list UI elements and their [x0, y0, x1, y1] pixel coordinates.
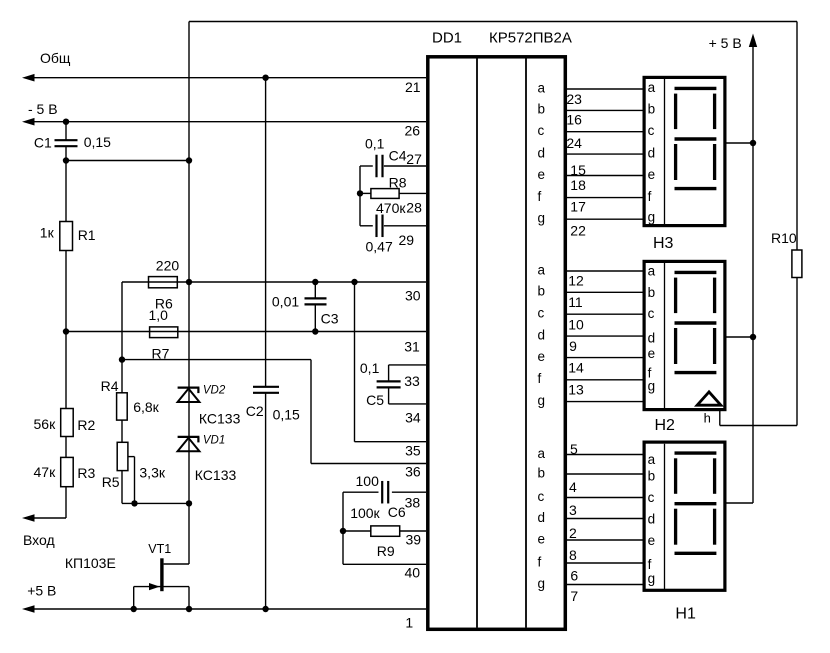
svg-text:КС133: КС133 — [199, 411, 241, 427]
capacitor C3 0,01 — [305, 297, 327, 299]
svg-text:2: 2 — [569, 525, 577, 541]
svg-text:f: f — [538, 371, 542, 386]
svg-text:31: 31 — [404, 339, 420, 355]
svg-text:b: b — [648, 285, 656, 300]
wire R7 line to DD1 pin 31 — [66, 331, 426, 333]
svg-text:e: e — [538, 531, 546, 546]
svg-text:c: c — [648, 123, 655, 138]
svg-text:e: e — [648, 533, 656, 548]
svg-text:e: e — [648, 346, 656, 361]
wire C3 bottom stub — [314, 305, 316, 332]
wire +5 В rail to DD1 pin 1 — [25, 608, 426, 610]
svg-text:0,1: 0,1 — [360, 360, 380, 376]
svg-text:d: d — [648, 331, 656, 346]
svg-text:C5: C5 — [366, 392, 384, 408]
svg-text:VT1: VT1 — [148, 542, 171, 556]
capacitor C1 0,15 — [55, 139, 78, 141]
svg-text:e: e — [538, 349, 546, 364]
7-segment indicator H1 — [644, 442, 725, 590]
svg-text:b: b — [538, 284, 546, 299]
capacitor C6 100 — [381, 481, 383, 504]
svg-text:R8: R8 — [389, 175, 407, 191]
wire +5 В vertical to displays — [752, 45, 754, 503]
svg-text:b: b — [538, 465, 546, 480]
node junction R1 bottom / R7 line — [63, 328, 69, 334]
wire bracket vertical pins 27-29 — [359, 166, 361, 226]
wire vertical x=311 down to pin 36 line — [310, 360, 312, 464]
svg-text:d: d — [538, 510, 546, 525]
wire H2 point h to R10 — [719, 411, 721, 426]
svg-text:+ 5 В: + 5 В — [709, 35, 742, 51]
svg-text:c: c — [648, 490, 655, 505]
wire DD1 pin 35 line from pin30 branch — [355, 441, 427, 443]
wire DD1 pin 27 line — [384, 165, 426, 167]
svg-text:a: a — [538, 446, 546, 461]
op-amp U1 ADC DD1 КР572ПВ2А body — [428, 57, 566, 630]
svg-text:34: 34 — [405, 410, 421, 426]
resistor R6 220 — [149, 277, 178, 288]
resistor R4 6,8к — [117, 393, 128, 420]
wire DD1 pin 40 line — [343, 563, 426, 565]
svg-text:21: 21 — [405, 79, 421, 95]
svg-text:0,47: 0,47 — [366, 239, 393, 255]
wire H1 common to +5 line — [727, 502, 754, 504]
wire segment lines DD1 to H3 — [566, 88, 643, 90]
svg-text:23: 23 — [566, 91, 582, 107]
svg-text:22: 22 — [570, 222, 586, 238]
svg-text:47к: 47к — [34, 464, 57, 480]
svg-text:24: 24 — [566, 135, 582, 151]
wire -5 В rail to DD1 pin 26 — [25, 121, 426, 123]
svg-text:c: c — [538, 489, 545, 504]
wire R5 bottom to VD1 anode junction — [122, 502, 189, 504]
zener diode VD1 КС133 — [178, 436, 200, 438]
svg-text:28: 28 — [406, 200, 422, 216]
wire segment lines DD1 to H1 — [566, 454, 643, 456]
7-segment indicator H3 — [644, 77, 725, 225]
resistor R10 — [792, 250, 802, 278]
resistor R5 3,3к (trimmer) — [117, 442, 128, 470]
svg-text:f: f — [648, 189, 652, 204]
wire DD1 pin 28 line — [360, 192, 371, 194]
svg-text:C1: C1 — [34, 135, 52, 151]
svg-text:H1: H1 — [675, 606, 696, 623]
svg-text:C6: C6 — [388, 504, 406, 520]
svg-text:18: 18 — [570, 177, 586, 193]
wire Общ rail to DD1 pin 21 — [25, 77, 426, 79]
svg-text:9: 9 — [569, 338, 577, 354]
svg-text:R10: R10 — [771, 230, 797, 246]
svg-text:a: a — [648, 80, 656, 95]
svg-text:d: d — [538, 145, 546, 160]
svg-text:H2: H2 — [655, 417, 676, 434]
7-segment indicator H2 (with decimal point h) — [644, 261, 725, 409]
svg-text:40: 40 — [405, 565, 421, 581]
node Вход (input) terminal arrow — [22, 514, 35, 522]
svg-text:C4: C4 — [389, 148, 407, 164]
svg-text:13: 13 — [568, 381, 584, 397]
svg-text:e: e — [538, 167, 546, 182]
svg-text:H3: H3 — [653, 235, 674, 252]
svg-text:7: 7 — [570, 588, 578, 604]
svg-text:c: c — [648, 306, 655, 321]
svg-text:17: 17 — [570, 199, 586, 215]
zener diode VD2 КС133 — [178, 387, 200, 389]
svg-text:11: 11 — [568, 294, 583, 310]
svg-text:0,1: 0,1 — [365, 136, 385, 152]
svg-text:d: d — [648, 512, 656, 527]
svg-text:30: 30 — [405, 288, 421, 304]
svg-text:b: b — [648, 469, 656, 484]
wire top rail from node over DD1 to R10 — [189, 21, 797, 23]
capacitor C2 0,15 — [253, 386, 279, 388]
svg-text:12: 12 — [568, 273, 584, 289]
wire VT1 source to +5 rail — [188, 587, 190, 609]
svg-text:R1: R1 — [78, 227, 96, 243]
svg-text:f: f — [538, 189, 542, 204]
wire C2 bottom to +5 В rail — [265, 393, 267, 609]
transistor VT1 КП103Е (JFET) — [160, 558, 163, 591]
svg-text:35: 35 — [405, 443, 421, 459]
svg-text:36: 36 — [405, 464, 421, 480]
wire H2 common to +5 line — [727, 336, 754, 338]
svg-text:16: 16 — [566, 112, 582, 128]
resistor R3 47к — [61, 457, 73, 486]
wire vertical x=122 R6 left down to R4/R5 — [121, 282, 123, 503]
svg-text:a: a — [538, 262, 546, 277]
svg-text:a: a — [648, 264, 656, 279]
svg-text:220: 220 — [156, 258, 180, 274]
svg-text:470к: 470к — [376, 200, 406, 216]
svg-text:a: a — [648, 452, 656, 467]
svg-text:10: 10 — [568, 316, 584, 332]
svg-text:b: b — [538, 102, 546, 117]
svg-text:VD2: VD2 — [203, 385, 226, 397]
wire left column x=66 (R1-R2-R3 chain) — [65, 161, 67, 519]
svg-text:33: 33 — [404, 373, 420, 389]
wire DD1 pin 34 stub — [389, 403, 426, 405]
wire DD1 pin 39 line — [343, 530, 371, 532]
svg-text:R2: R2 — [77, 417, 95, 433]
svg-text:14: 14 — [568, 360, 584, 376]
svg-text:f: f — [538, 554, 542, 569]
resistor R2 56к — [61, 409, 73, 437]
resistor R7 1,0 — [150, 327, 178, 338]
wire C2 top to Общ rail — [265, 78, 267, 387]
svg-text:a: a — [538, 80, 546, 95]
svg-text:КП103Е: КП103Е — [65, 555, 116, 571]
svg-text:6: 6 — [570, 568, 578, 584]
wire R4 top reference line to vertical x=311 — [122, 359, 311, 361]
wire H3 common to +5 line — [727, 142, 754, 144]
svg-text:Вход: Вход — [23, 532, 55, 548]
svg-text:100к: 100к — [350, 505, 380, 521]
svg-text:6,8к: 6,8к — [133, 399, 159, 415]
svg-text:Общ: Общ — [40, 50, 71, 66]
wire segment lines DD1 to H2 — [566, 270, 643, 272]
svg-text:56к: 56к — [34, 416, 57, 432]
svg-text:R5: R5 — [102, 474, 120, 490]
wire R5 wiper tap — [128, 456, 135, 458]
svg-text:38: 38 — [405, 495, 421, 511]
resistor R1 1к — [60, 222, 73, 251]
wire VT1 gate to +5 rail — [133, 587, 135, 609]
svg-text:h: h — [704, 411, 711, 426]
resistor R8 470к — [371, 189, 399, 199]
svg-text:3: 3 — [569, 502, 577, 518]
svg-text:КС133: КС133 — [195, 467, 237, 483]
svg-text:39: 39 — [406, 532, 422, 548]
node Общ (common) terminal arrow — [22, 74, 35, 82]
svg-text:27: 27 — [406, 151, 422, 167]
wire C1 top to -5 В rail — [65, 122, 67, 140]
svg-text:26: 26 — [405, 123, 421, 139]
node +5 В terminal arrow (bottom) — [22, 605, 35, 613]
svg-text:+5 В: +5 В — [27, 582, 56, 598]
svg-text:VD1: VD1 — [203, 435, 225, 447]
svg-text:g: g — [648, 210, 656, 225]
svg-text:DD1: DD1 — [432, 30, 462, 47]
svg-text:1к: 1к — [40, 225, 55, 241]
svg-text:f: f — [648, 557, 652, 572]
resistor R9 100к — [371, 526, 400, 536]
svg-text:R9: R9 — [377, 543, 395, 559]
wire DD1 pin 36 line — [311, 463, 426, 465]
svg-text:3,3к: 3,3к — [139, 465, 165, 481]
svg-text:КР572ПВ2А: КР572ПВ2А — [489, 30, 572, 47]
svg-text:5: 5 — [570, 441, 578, 457]
wire DD1 pin 29 line — [360, 225, 373, 227]
capacitor C4 0,1 — [375, 155, 377, 178]
svg-text:1: 1 — [405, 615, 413, 631]
svg-text:g: g — [648, 379, 656, 394]
node -5 В terminal arrow — [22, 118, 35, 126]
svg-text:0,15: 0,15 — [273, 407, 300, 423]
svg-text:0,15: 0,15 — [84, 134, 111, 150]
wire DD1 pin 38 line — [343, 491, 379, 493]
svg-text:C3: C3 — [321, 311, 339, 327]
wire C3 top stub — [314, 282, 316, 298]
wire R6 line to DD1 pin 30 — [122, 281, 426, 283]
svg-text:R4: R4 — [101, 378, 119, 394]
svg-text:g: g — [538, 211, 546, 226]
capacitor C5 0,1 — [377, 380, 401, 382]
svg-text:c: c — [538, 123, 545, 138]
svg-text:R3: R3 — [77, 465, 95, 481]
svg-text:29: 29 — [399, 232, 415, 248]
node + 5 В terminal arrow (top right) — [749, 34, 757, 48]
svg-text:g: g — [538, 393, 546, 408]
svg-text:15: 15 — [570, 162, 586, 178]
svg-text:b: b — [648, 102, 656, 117]
svg-text:d: d — [538, 327, 546, 342]
svg-text:100: 100 — [356, 473, 380, 489]
svg-text:0,01: 0,01 — [272, 294, 299, 310]
wire bracket vertical pins 38-40 — [342, 492, 344, 564]
svg-text:e: e — [648, 167, 656, 182]
svg-text:d: d — [648, 146, 656, 161]
capacitor 0,47 (pin 29) — [375, 215, 377, 238]
wire top rail down to R10 — [796, 22, 798, 251]
svg-text:- 5 В: - 5 В — [28, 101, 58, 117]
svg-text:4: 4 — [569, 479, 577, 495]
wire long vertical x=189 (rail to VT1 drain, carries VD1-VD2 chain) — [188, 22, 190, 565]
svg-text:g: g — [648, 571, 656, 586]
svg-text:C2: C2 — [246, 403, 264, 419]
svg-text:1,0: 1,0 — [149, 307, 169, 323]
svg-text:g: g — [538, 576, 546, 591]
wire R10 down to h line — [796, 278, 798, 426]
wire DD1 pin 33 stub — [389, 364, 426, 366]
svg-text:c: c — [538, 306, 545, 321]
wire C1 bottom junction to x=189 vertical — [65, 147, 67, 161]
svg-text:8: 8 — [569, 547, 577, 563]
